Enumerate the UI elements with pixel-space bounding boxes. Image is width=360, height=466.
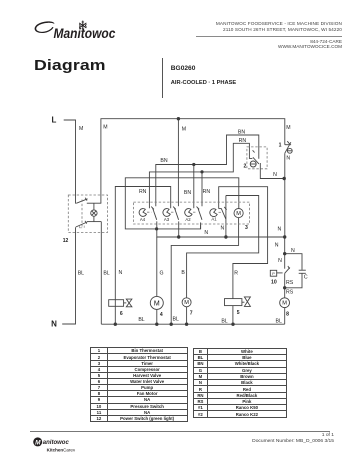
svg-text:KitchenCare®: KitchenCare® [47,447,76,452]
svg-text:M: M [35,439,41,446]
svg-text:anitowoc: anitowoc [43,440,70,446]
